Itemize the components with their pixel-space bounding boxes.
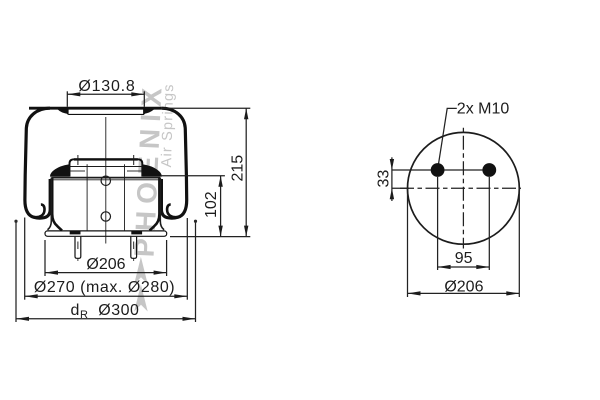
bead wedge right — [143, 109, 154, 114]
dimension texts left view — [34, 78, 247, 321]
Ø206 arrows — [45, 271, 58, 275]
piston base plate — [45, 231, 167, 236]
Ø130.8 arrows — [67, 92, 80, 96]
stud left — [75, 237, 81, 261]
dot markers d_R — [14, 220, 17, 223]
bellows roll inner curl left — [34, 205, 45, 218]
bellows inner leg left (piston wall with bellows clamp) — [52, 178, 62, 231]
svg-text:Ø206: Ø206 — [86, 256, 125, 273]
Ø270 arrows — [25, 294, 38, 298]
bolt right — [482, 163, 496, 177]
piston plate inner line 2 — [70, 170, 86, 172]
svg-text:dR Ø300: dR Ø300 — [71, 302, 140, 321]
dim 102 extension line top — [161, 175, 225, 177]
center vertical dashed — [462, 128, 464, 249]
stud bosses — [70, 231, 81, 234]
102 arrows — [218, 176, 222, 187]
Ø206 arrows — [408, 291, 421, 295]
bellows left corner+side+roll — [25, 108, 50, 218]
bellows outer outline — [25, 108, 187, 230]
top plate — [64, 110, 147, 114]
svg-text:2x M10: 2x M10 — [457, 100, 510, 117]
piston top plate — [70, 159, 143, 176]
dimension texts right view — [375, 100, 509, 295]
dim Ø300 extension lines with dots — [15, 221, 17, 322]
95 arrows — [438, 265, 451, 269]
hole upper — [101, 176, 110, 185]
svg-text:95: 95 — [455, 250, 473, 267]
dim Ø206 extension lines — [44, 240, 46, 276]
95 dim line — [438, 266, 490, 268]
33 dim line — [391, 157, 393, 201]
Ø300 arrows — [16, 317, 29, 321]
watermark PHOENIX logo — [129, 80, 178, 311]
svg-text:Ø270 (max. Ø280): Ø270 (max. Ø280) — [34, 279, 175, 296]
Ø206 dim line — [408, 292, 520, 294]
piston plate inner line — [70, 166, 143, 168]
dim Ø280 extension lines — [24, 218, 26, 300]
dim 215 line — [245, 108, 247, 236]
bolt ext lines down — [437, 177, 439, 270]
piston ear wedge left (filled) — [50, 164, 69, 176]
stud tick marks above piston plate — [77, 155, 79, 165]
svg-text:Ø206: Ø206 — [444, 278, 483, 295]
dim Ø270 line — [25, 295, 188, 297]
svg-text:215: 215 — [230, 155, 247, 182]
33 arrows (outside) — [390, 159, 394, 170]
bottom extension line (215/102) — [170, 236, 250, 238]
bolt axis line — [392, 169, 489, 171]
svg-text:Air Springs: Air Springs — [159, 83, 177, 168]
bellows right corner+side+roll — [161, 108, 186, 218]
dim 102 line — [220, 176, 222, 237]
arrowheads left view — [16, 92, 248, 321]
dim 215 extension line top — [162, 107, 250, 109]
215 arrows — [244, 108, 248, 119]
dim Ø206 line — [45, 272, 167, 274]
circle Ø206 top view — [408, 132, 520, 244]
Ø206 ext lines — [407, 188, 409, 297]
svg-text:Ø130.8: Ø130.8 — [78, 78, 135, 95]
dim Ø300 line — [16, 318, 196, 320]
center line left view — [105, 117, 107, 244]
leader 2x M10 — [438, 108, 457, 168]
stud right — [131, 237, 137, 261]
arrowheads right view — [390, 159, 520, 296]
column lines — [86, 164, 88, 231]
dim Ø130.8 line — [67, 93, 144, 95]
bellows roll inner curl right — [167, 205, 178, 218]
svg-text:33: 33 — [375, 170, 392, 188]
piston side walls — [48, 178, 52, 230]
piston flange top — [51, 177, 160, 179]
svg-text:102: 102 — [203, 191, 220, 218]
bellows top line — [29, 107, 162, 110]
bolt left — [431, 163, 445, 177]
bead wedge left — [58, 109, 69, 114]
bellows inner leg right — [150, 178, 160, 231]
piston ear wedge right (filled) — [143, 164, 162, 176]
center horizontal: solid stub then dashed — [392, 187, 409, 189]
hole lower — [101, 212, 110, 221]
dim Ø130.8 extension lines — [66, 91, 68, 107]
